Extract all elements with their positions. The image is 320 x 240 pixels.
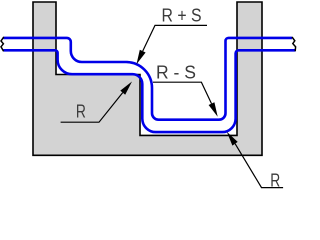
- sheet top surface (blue): [4, 38, 293, 120]
- label R + S arrowhead: [137, 50, 146, 64]
- label R (bottom right) arrowhead: [227, 132, 238, 146]
- label R - S arrowhead: [209, 102, 218, 117]
- die block (gray tooling: left column, step shoulder, U-cavity, right column, base slab): [33, 2, 262, 155]
- label R (left) leader line: [61, 93, 123, 123]
- label R (left) arrowhead: [120, 82, 132, 95]
- label R - S leader line: [153, 82, 212, 103]
- sheet bottom surface (blue): [3, 50, 295, 132]
- svg-text:R: R: [76, 101, 86, 121]
- label R + S leader line: [143, 25, 207, 51]
- right sheet break symbol: [292, 37, 296, 51]
- label R (bottom right) leader line: [235, 144, 283, 188]
- svg-text:R - S: R - S: [156, 63, 196, 83]
- left sheet break symbol: [1, 37, 4, 51]
- svg-text:R + S: R + S: [162, 6, 202, 26]
